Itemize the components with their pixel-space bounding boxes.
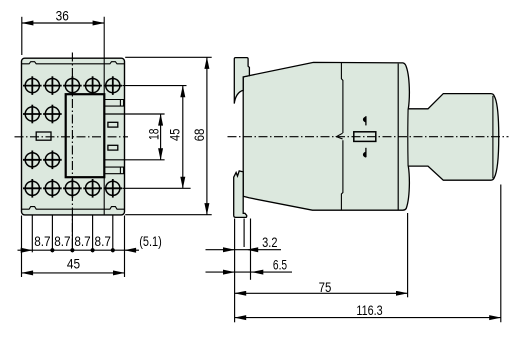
svg-text:75: 75 xyxy=(319,279,332,295)
front view vertical centreline xyxy=(71,53,73,252)
coil position indicator rectangle xyxy=(354,132,376,142)
screw terminals row 2 (2x) xyxy=(23,105,62,124)
extension lines below front view xyxy=(22,216,125,278)
svg-text:18: 18 xyxy=(146,128,162,140)
extension lines below side view xyxy=(235,185,501,323)
aux tab bottom right xyxy=(105,167,124,174)
front view body xyxy=(22,58,125,215)
small window rect upper xyxy=(108,122,118,127)
dimension 116.3 xyxy=(235,302,501,318)
lower stroke indicator flag xyxy=(363,148,366,158)
front plate line xyxy=(398,64,408,210)
small window rect lower xyxy=(108,145,118,150)
svg-text:45: 45 xyxy=(166,128,182,140)
svg-text:3.2: 3.2 xyxy=(262,234,277,250)
label rect between coil terminals xyxy=(36,132,51,140)
svg-text:8.7: 8.7 xyxy=(95,233,111,249)
dimension 18 (vertical) xyxy=(146,114,162,160)
svg-text:45: 45 xyxy=(67,256,80,272)
front face boundary line (36mm module edge, also 36-dim right extension) xyxy=(103,17,105,215)
mounting flange bottom tab with claw xyxy=(234,171,247,218)
extension lines right of front view xyxy=(105,57,212,214)
aux tab top right xyxy=(105,100,124,107)
svg-text:6.5: 6.5 xyxy=(273,256,287,272)
svg-text:8.7: 8.7 xyxy=(54,233,70,249)
recessed centre panel xyxy=(66,94,105,177)
dimension 75 xyxy=(235,279,408,295)
front view top cap line with latch bumps xyxy=(22,62,125,64)
dimension 45 (vertical) xyxy=(166,86,182,189)
front view horizontal centreline xyxy=(15,136,129,138)
svg-text:8.7: 8.7 xyxy=(34,233,50,249)
screw terminals row 4 (bottom, 5x) xyxy=(23,179,122,198)
dimension 68 (vertical) xyxy=(191,57,207,214)
side view silhouette xyxy=(243,62,499,210)
dimension 6.5 xyxy=(206,256,293,274)
front view bottom cap line with latch bumps xyxy=(22,207,125,210)
dimension 45 (bottom width) xyxy=(22,256,125,273)
dimension 3.2 (flange thickness) xyxy=(206,234,282,252)
dimension 36 (top width) xyxy=(22,8,104,56)
mounting flange top tab with rail hook xyxy=(234,58,249,104)
svg-text:36: 36 xyxy=(56,8,69,24)
svg-text:(5.1): (5.1) xyxy=(139,233,162,249)
screw terminals row 3 (2x) xyxy=(23,151,62,170)
chained dimension 8.7 x4 and (5.1) xyxy=(18,233,162,252)
upper stroke indicator flag xyxy=(363,116,366,125)
svg-text:8.7: 8.7 xyxy=(74,233,90,249)
screw terminals row 1 (top, 5x) xyxy=(23,76,122,95)
housing parting line with jogs xyxy=(336,63,343,210)
side view horizontal centreline xyxy=(228,136,509,138)
svg-text:68: 68 xyxy=(191,128,207,141)
svg-text:116.3: 116.3 xyxy=(356,302,382,318)
